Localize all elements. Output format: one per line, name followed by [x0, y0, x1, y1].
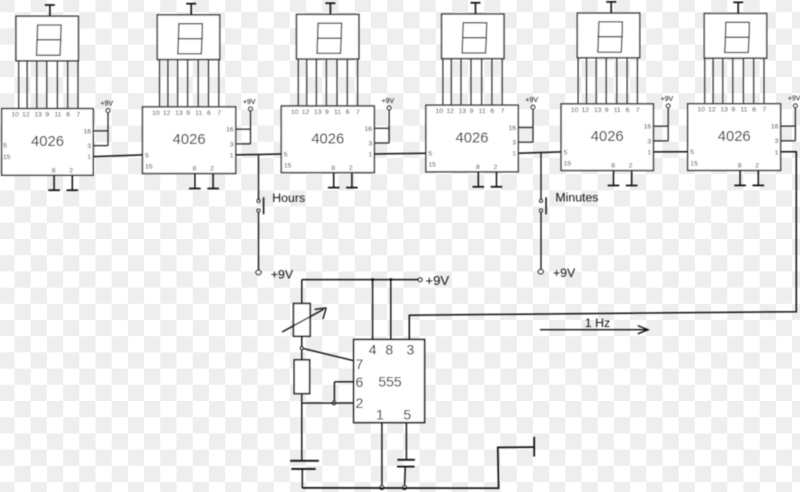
wire DS1 segment 4 to U1 [46, 61, 48, 109]
wire U6 pin 16 to +9V [781, 125, 796, 127]
svg-text:+9V: +9V [381, 98, 394, 105]
U2 right pin numbers 16 3 1 [226, 127, 234, 160]
svg-text:8: 8 [738, 163, 742, 170]
svg-text:+9V: +9V [271, 267, 294, 281]
wire DS2 segment 2 to U2 [167, 60, 169, 107]
svg-text:9: 9 [605, 107, 609, 114]
svg-text:4: 4 [369, 342, 377, 358]
display DS6 common pin [733, 2, 743, 13]
wire DS5 segment 1 to U5 [577, 58, 579, 104]
svg-text:12: 12 [446, 108, 454, 115]
svg-text:6: 6 [346, 109, 350, 116]
wire U1 pin 1 to U2 clock [93, 155, 142, 157]
junction C2/ground [403, 486, 407, 490]
svg-text:+9V: +9V [425, 273, 449, 288]
ground U2 pin 8 [189, 174, 201, 189]
wire DS5 segment 3 to U5 [595, 58, 597, 104]
U5 right pin numbers 16 3 1 [644, 124, 652, 157]
svg-text:12: 12 [163, 110, 171, 117]
svg-text:8: 8 [331, 165, 335, 172]
U1 left pin numbers 5 15 [3, 143, 11, 162]
junction VR1/R1 node [300, 347, 303, 350]
svg-text:Minutes: Minutes [555, 190, 598, 204]
wire U7 pin 3 output to U6 pin 1 (1 Hz) [409, 152, 796, 340]
ground U1 pin 8 [48, 175, 60, 190]
wire hours tap [258, 155, 260, 200]
wire DS6 segment 1 to U6 [704, 58, 706, 104]
svg-text:16: 16 [83, 128, 91, 135]
svg-text:16: 16 [226, 127, 234, 134]
wire U7 pin 4 to rail [372, 280, 374, 340]
wire DS2 segment 6 to U2 [208, 60, 210, 107]
IC U1 (4026 decade counter) [2, 109, 94, 176]
svg-text:8: 8 [52, 167, 56, 174]
svg-text:5: 5 [403, 406, 411, 422]
display DS4 common pin [471, 3, 481, 14]
svg-text:1: 1 [376, 406, 384, 422]
wire U4 pin 3 to +9V [518, 141, 533, 143]
wire U5 pin 1 to U6 clock [653, 151, 687, 153]
wire U5 pin 3 to +9V [653, 140, 668, 142]
svg-text:7: 7 [501, 108, 505, 115]
wire U3 pin 16 to +9V [374, 127, 389, 129]
wire minutes tap [540, 153, 542, 200]
svg-text:16: 16 [365, 126, 373, 133]
ground U6 pin 8 [734, 170, 746, 185]
wire rail to VR1 [301, 280, 303, 304]
wire DS4 segment 3 to U4 [460, 59, 462, 106]
push-button S1 (Hours set) [257, 197, 264, 214]
svg-text:7: 7 [762, 107, 766, 114]
svg-text:15: 15 [3, 154, 11, 161]
svg-text:1: 1 [775, 149, 779, 156]
svg-text:5: 5 [564, 149, 568, 156]
svg-text:9: 9 [45, 112, 49, 119]
svg-text:3: 3 [647, 138, 651, 145]
wire DS6 segment 7 to U6 [763, 58, 765, 104]
wire U1 pin 16 to +9V [93, 130, 108, 132]
svg-text:13: 13 [594, 107, 602, 114]
svg-text:11: 11 [195, 110, 202, 117]
U6 top pin numbers 10 12 13 9 11 6 7 [697, 107, 766, 114]
svg-text:4026: 4026 [456, 131, 489, 147]
svg-text:3: 3 [87, 143, 91, 150]
U4 right pin numbers 16 3 1 [508, 125, 516, 158]
svg-text:3: 3 [230, 141, 234, 148]
wire U4 pin 1 to U5 clock [518, 152, 561, 153]
svg-text:13: 13 [175, 110, 183, 117]
IC U2 (4026 decade counter) [143, 107, 236, 174]
7-segment display DS3 [297, 14, 359, 59]
ground U6 pin 2 [753, 170, 765, 185]
wire U7 pin 8 to rail [390, 280, 392, 340]
+9V terminal S2 [538, 266, 576, 280]
wire DS5 segment 6 to U5 [626, 58, 628, 104]
svg-text:5: 5 [690, 149, 694, 156]
svg-text:+9V: +9V [788, 96, 800, 103]
wire U5 pin 16 to +9V [653, 125, 668, 127]
svg-text:9: 9 [186, 110, 190, 117]
U3 right pin numbers 16 3 1 [365, 126, 373, 159]
svg-text:3: 3 [368, 140, 372, 147]
U3 top pin numbers 10 12 13 9 11 6 7 [291, 109, 360, 116]
wire +9V drop U3 [388, 110, 390, 143]
ground U4 pin 2 [491, 172, 503, 187]
svg-text:7: 7 [356, 356, 364, 372]
wire U6 pin 3 to +9V [781, 140, 796, 142]
svg-text:+9V: +9V [100, 101, 113, 108]
svg-text:2: 2 [349, 165, 353, 172]
ground rail wire [302, 447, 534, 488]
junction pin6/pin2 [332, 401, 336, 405]
wire node to 555 pin 7 [303, 348, 354, 360]
svg-text:13: 13 [720, 107, 728, 114]
U1 top pin numbers 10 12 13 9 11 6 7 [11, 112, 80, 119]
svg-text:15: 15 [145, 163, 153, 170]
resistor R1 [294, 360, 309, 394]
svg-text:1: 1 [368, 152, 372, 159]
U1 bottom pin numbers 8 2 [52, 167, 73, 174]
svg-text:+9V: +9V [553, 266, 576, 280]
svg-text:2: 2 [755, 163, 759, 170]
wire DS6 segment 5 to U6 [742, 58, 744, 104]
svg-text:10: 10 [291, 109, 299, 116]
svg-text:2: 2 [629, 163, 633, 170]
svg-text:7: 7 [636, 107, 640, 114]
svg-text:10: 10 [152, 110, 160, 117]
7-segment display DS2 [157, 15, 219, 60]
svg-text:12: 12 [708, 107, 716, 114]
svg-text:10: 10 [436, 108, 444, 115]
svg-text:13: 13 [34, 112, 42, 119]
wire DS1 segment 2 to U1 [26, 61, 28, 109]
wire DS4 segment 2 to U4 [450, 59, 452, 106]
svg-text:5: 5 [145, 152, 149, 159]
svg-text:16: 16 [644, 124, 652, 131]
U5 bottom pin numbers 8 2 [611, 163, 633, 170]
svg-text:13: 13 [459, 108, 467, 115]
wire DS6 segment 2 to U6 [712, 58, 714, 104]
wire DS5 segment 5 to U5 [616, 58, 618, 104]
svg-text:6: 6 [207, 110, 211, 117]
wire +9V drop U1 [107, 113, 109, 146]
U4 top pin numbers 10 12 13 9 11 6 7 [436, 108, 505, 115]
wire U2 pin 1 to U3 clock [236, 153, 282, 156]
wire C1 to ground rail [301, 469, 303, 488]
junction pin8/rail [389, 278, 392, 281]
svg-text:8: 8 [193, 166, 197, 173]
svg-text:4026: 4026 [31, 134, 64, 150]
svg-text:8: 8 [611, 163, 615, 170]
ground U3 pin 8 [328, 173, 340, 188]
svg-text:15: 15 [284, 163, 292, 170]
7-segment display DS6 [704, 14, 766, 59]
IC U5 (4026 decade counter) [561, 104, 653, 171]
svg-text:11: 11 [54, 112, 61, 119]
svg-text:6: 6 [490, 108, 494, 115]
svg-text:1: 1 [87, 154, 91, 161]
svg-text:+9V: +9V [661, 96, 674, 103]
U5 top pin numbers 10 12 13 9 11 6 7 [571, 107, 640, 114]
svg-text:15: 15 [690, 160, 698, 167]
+9V terminal U1 [100, 101, 113, 113]
wire DS3 segment 7 to U3 [357, 59, 359, 106]
U2 bottom pin numbers 8 2 [193, 166, 215, 173]
wire +9V drop U4 [532, 109, 534, 142]
switch contact plate [533, 437, 535, 457]
svg-text:7: 7 [356, 109, 360, 116]
svg-text:12: 12 [302, 109, 310, 116]
+9V terminal (rail) [418, 273, 449, 288]
svg-text:3: 3 [775, 138, 779, 145]
wire DS3 segment 4 to U3 [325, 59, 327, 106]
wire DS2 segment 7 to U2 [218, 60, 220, 107]
wire DS1 segment 1 to U1 [18, 61, 20, 109]
wire DS3 segment 2 to U3 [306, 59, 308, 106]
svg-text:3: 3 [407, 342, 415, 358]
svg-text:+9V: +9V [243, 99, 256, 106]
display DS5 common pin [606, 2, 616, 13]
wire DS3 segment 5 to U3 [336, 59, 338, 106]
+9V terminal U3 [381, 98, 394, 110]
svg-text:2: 2 [69, 167, 73, 174]
svg-text:555: 555 [378, 374, 402, 390]
wire S2 to +9V [540, 212, 542, 269]
wire DS3 segment 6 to U3 [346, 59, 348, 106]
svg-text:11: 11 [740, 107, 747, 114]
wire +9V drop U6 [794, 108, 796, 141]
wire DS5 segment 4 to U5 [605, 58, 607, 104]
ground U5 pin 2 [626, 171, 638, 186]
svg-text:10: 10 [11, 112, 19, 119]
U6 right pin numbers 16 3 1 [771, 124, 779, 157]
svg-text:10: 10 [571, 107, 579, 114]
svg-text:11: 11 [479, 108, 486, 115]
svg-text:8: 8 [476, 164, 480, 171]
svg-text:5: 5 [3, 143, 7, 150]
display DS2 common pin [186, 4, 196, 15]
variable resistor VR1 [282, 304, 326, 337]
wire DS6 segment 6 to U6 [753, 58, 755, 104]
wire DS3 segment 1 to U3 [297, 59, 299, 106]
IC U6 (4026 decade counter) [688, 104, 781, 171]
svg-text:13: 13 [314, 109, 322, 116]
wire DS4 segment 7 to U4 [501, 59, 503, 106]
wire DS1 segment 3 to U1 [36, 61, 38, 109]
wire U2 pin 3 to +9V [236, 143, 251, 145]
svg-text:+9V: +9V [525, 97, 538, 104]
wire U2 pin 16 to +9V [236, 128, 251, 130]
IC U3 (4026 decade counter) [281, 106, 374, 173]
wire DS4 segment 6 to U4 [491, 59, 493, 106]
U1 right pin numbers 16 3 1 [83, 128, 91, 161]
wire DS4 segment 1 to U4 [442, 59, 444, 106]
capacitor C2 [397, 460, 415, 467]
junction pin1/ground [380, 486, 384, 490]
wire VR1 to R1 [301, 336, 303, 360]
7-segment display DS5 [577, 13, 639, 58]
+9V terminal U4 [525, 97, 538, 109]
svg-text:16: 16 [508, 125, 516, 132]
U5 left pin numbers 5 15 [564, 149, 572, 167]
wire U3 pin 1 to U4 clock [374, 152, 426, 155]
wire DS2 segment 5 to U2 [197, 60, 199, 107]
svg-text:4026: 4026 [173, 132, 206, 148]
svg-text:5: 5 [428, 151, 432, 158]
U2 top pin numbers 10 12 13 9 11 6 7 [152, 110, 221, 117]
svg-text:2: 2 [356, 395, 364, 411]
U4 left pin numbers 5 15 [428, 151, 436, 169]
U6 left pin numbers 5 15 [690, 149, 698, 167]
ground U1 pin 2 [67, 175, 79, 190]
svg-text:4026: 4026 [311, 131, 344, 147]
svg-text:1 Hz: 1 Hz [585, 316, 610, 330]
svg-text:3: 3 [512, 140, 516, 147]
wire U7 pin 6 branch [334, 382, 353, 402]
junction pin4/rail [371, 278, 374, 281]
svg-text:6: 6 [626, 107, 630, 114]
+9V terminal U5 [661, 96, 674, 108]
wire S1 to +9V [258, 212, 260, 270]
U2 left pin numbers 5 15 [145, 152, 153, 170]
svg-text:6: 6 [752, 107, 756, 114]
ground U2 pin 2 [207, 174, 219, 189]
svg-text:1: 1 [230, 152, 234, 159]
svg-text:15: 15 [428, 162, 436, 169]
wire U1 pin 3 to +9V [93, 145, 108, 147]
wire DS6 segment 4 to U6 [732, 58, 734, 104]
svg-text:8: 8 [385, 342, 393, 358]
svg-text:2: 2 [210, 166, 214, 173]
wire U4 pin 16 to +9V [518, 127, 533, 129]
wire DS1 segment 6 to U1 [67, 61, 69, 109]
svg-text:10: 10 [697, 107, 705, 114]
svg-text:6: 6 [66, 112, 70, 119]
wire U7 pin 2 to C1 node [302, 402, 354, 404]
ground U5 pin 8 [608, 171, 620, 186]
wire DS2 segment 1 to U2 [159, 60, 161, 107]
display DS3 common pin [325, 3, 335, 14]
wire DS4 segment 5 to U4 [481, 59, 483, 106]
wire DS1 segment 5 to U1 [56, 61, 58, 109]
wire DS2 segment 4 to U2 [187, 60, 189, 107]
wire U3 pin 3 to +9V [374, 142, 389, 144]
+9V terminal U6 [788, 96, 800, 108]
svg-text:4026: 4026 [718, 129, 751, 145]
wire DS5 segment 7 to U5 [636, 58, 638, 104]
wire DS1 segment 7 to U1 [77, 61, 79, 109]
IC U4 (4026 decade counter) [426, 105, 518, 172]
wire U7 pin 5 to C2 [405, 423, 407, 460]
svg-text:7: 7 [76, 112, 80, 119]
svg-text:5: 5 [284, 151, 288, 158]
svg-text:11: 11 [334, 109, 341, 116]
7-segment display DS1 [16, 16, 78, 61]
IC U7 (555 timer) [354, 340, 425, 423]
wire DS5 segment 2 to U5 [586, 58, 588, 104]
svg-text:1: 1 [512, 151, 516, 158]
U4 bottom pin numbers 8 2 [476, 164, 498, 171]
svg-text:11: 11 [614, 107, 621, 114]
U7 pin numbers [356, 342, 415, 423]
capacitor C1 [290, 461, 319, 469]
wire DS2 segment 3 to U2 [177, 60, 179, 107]
svg-text:4026: 4026 [591, 129, 624, 145]
svg-text:12: 12 [22, 112, 30, 119]
arrow 1 Hz direction [540, 326, 648, 334]
svg-text:Hours: Hours [272, 191, 305, 205]
display DS1 common pin [45, 5, 55, 16]
wire +9V drop U2 [250, 111, 252, 144]
svg-text:12: 12 [582, 107, 590, 114]
svg-text:2: 2 [494, 164, 498, 171]
7-segment display DS4 [442, 14, 504, 59]
+9V rail wire [302, 279, 419, 281]
push-button S2 (Minutes set) [540, 197, 547, 214]
U3 left pin numbers 5 15 [284, 151, 292, 169]
wire DS3 segment 3 to U3 [315, 59, 317, 106]
wire R1 to C1 [301, 394, 303, 461]
svg-text:1: 1 [647, 149, 651, 156]
wire DS6 segment 3 to U6 [722, 58, 724, 104]
svg-text:16: 16 [771, 124, 779, 131]
wire +9V drop U5 [667, 108, 669, 141]
svg-text:15: 15 [564, 160, 572, 167]
wire C2 to ground rail [404, 467, 407, 486]
svg-text:6: 6 [356, 374, 364, 390]
svg-text:7: 7 [217, 110, 221, 117]
ground U3 pin 2 [346, 173, 358, 188]
+9V terminal S1 [256, 267, 294, 281]
svg-text:9: 9 [325, 109, 329, 116]
+9V terminal U2 [243, 99, 256, 111]
U6 bottom pin numbers 8 2 [738, 163, 760, 170]
svg-text:9: 9 [470, 108, 474, 115]
U3 bottom pin numbers 8 2 [331, 165, 353, 172]
wire U7 pin 1 to ground rail [381, 423, 383, 486]
svg-text:9: 9 [731, 107, 735, 114]
wire DS4 segment 4 to U4 [470, 59, 472, 106]
ground U4 pin 8 [473, 172, 485, 187]
